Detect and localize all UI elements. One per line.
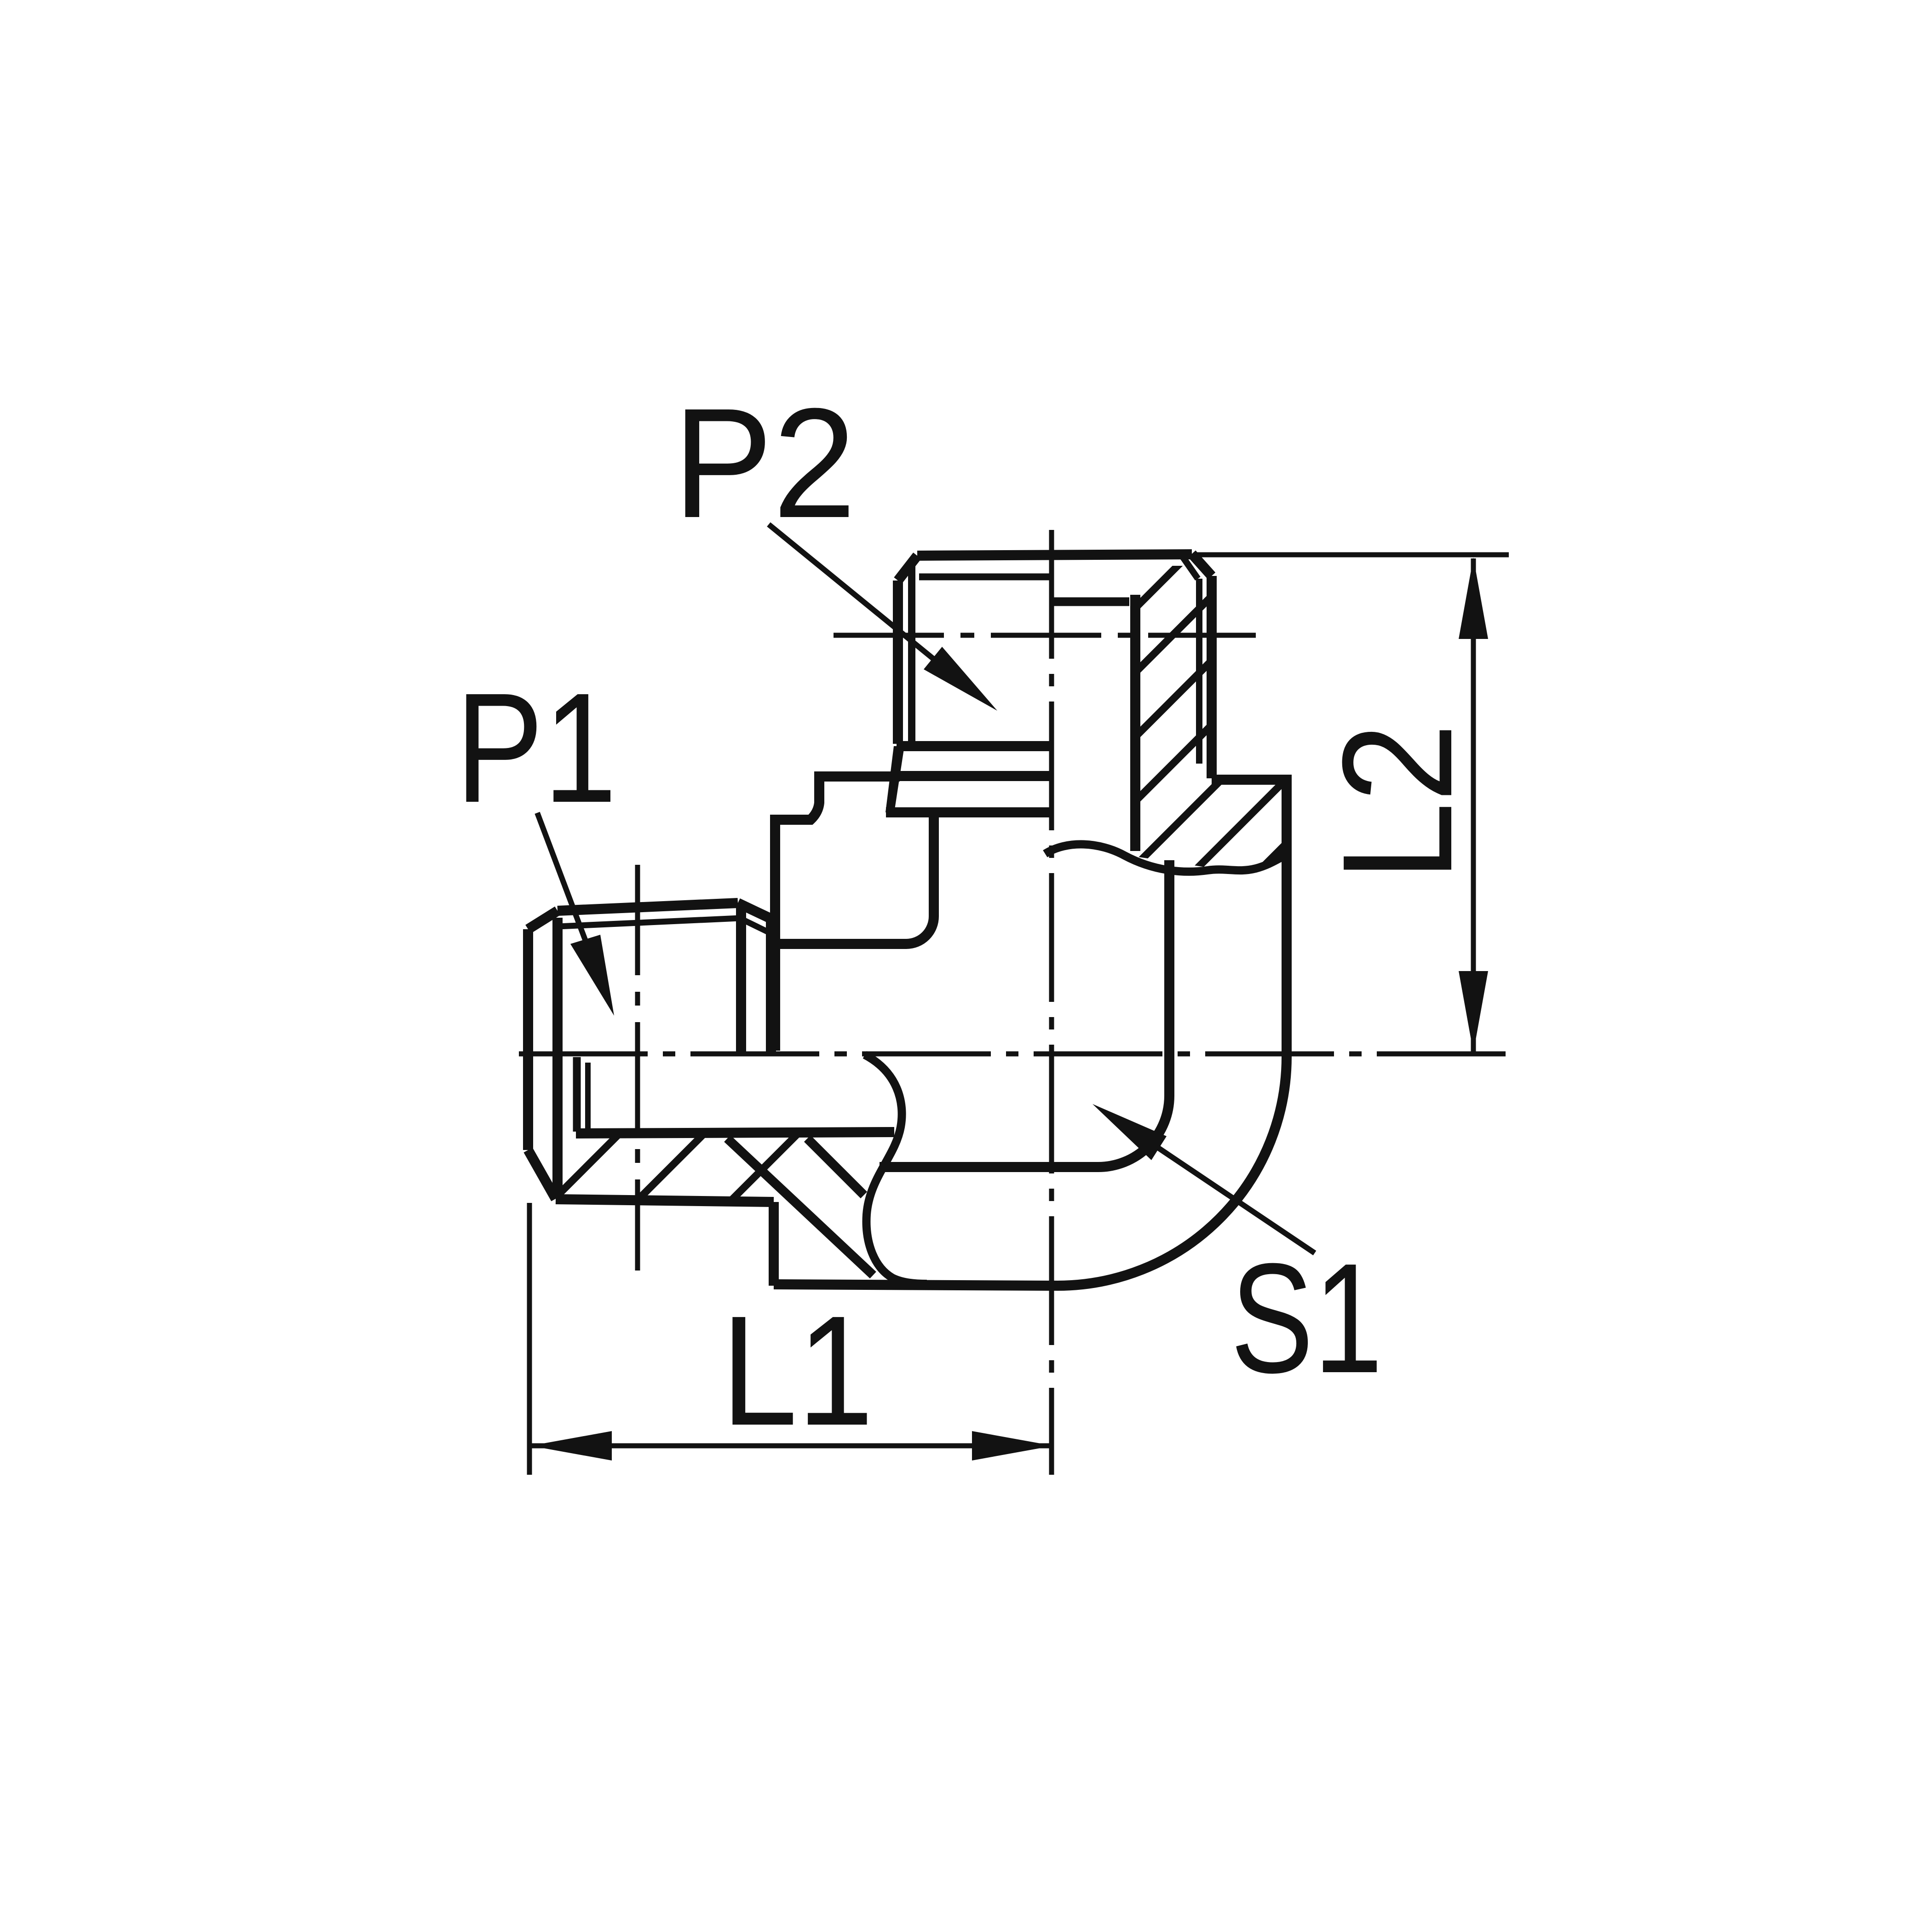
svg-text:L2: L2 [1310, 723, 1485, 881]
svg-text:P1: P1 [455, 661, 617, 835]
svg-text:S1: S1 [1230, 1231, 1383, 1406]
svg-text:P2: P2 [673, 376, 856, 551]
svg-text:L1: L1 [721, 1283, 874, 1458]
